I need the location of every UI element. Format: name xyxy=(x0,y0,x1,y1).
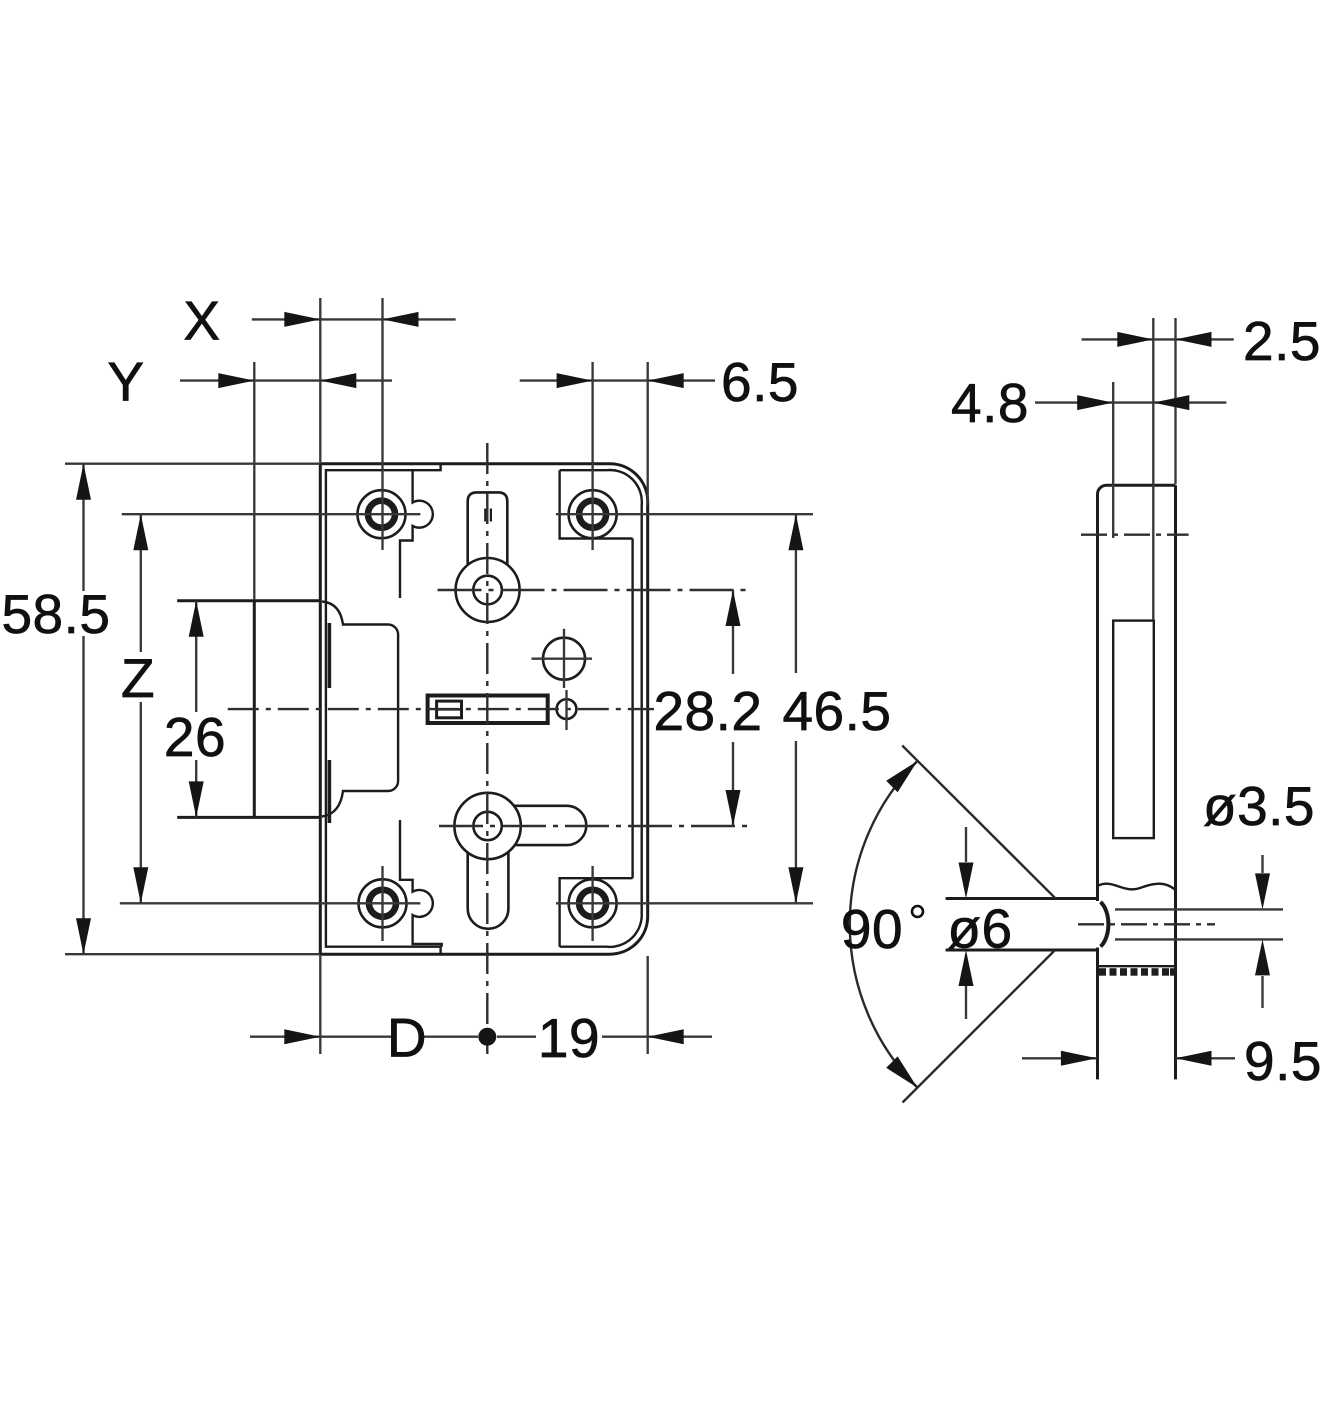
bottom-left screw boss outline with lobe xyxy=(400,820,442,947)
bottom lever inner circle xyxy=(473,812,501,840)
ø6 top arrowhead xyxy=(959,863,974,899)
ø3.5 top line xyxy=(1115,908,1283,910)
Y right arrowhead xyxy=(320,373,356,388)
dimension 4.8 line xyxy=(1035,401,1226,403)
dimension 58.5 line xyxy=(82,464,84,591)
bottom-right screw boss outline xyxy=(560,878,633,947)
main horizontal centerline xyxy=(228,708,654,710)
dimension ø3.5 line xyxy=(1261,855,1263,873)
thread band top line xyxy=(1098,965,1176,967)
svg-text:D: D xyxy=(387,1007,427,1069)
lock body inner edge right portion xyxy=(560,470,642,947)
dimension lines with arrows xyxy=(84,319,1263,1058)
Y left arrowhead xyxy=(218,373,254,388)
latch bolt flange left face xyxy=(253,601,256,818)
bottom-right screw hole bold ring xyxy=(579,890,606,917)
vertical centerline xyxy=(486,443,488,1054)
19 right arrowhead xyxy=(648,1029,684,1044)
crosshair and extension lines (thin) xyxy=(65,298,1283,1054)
svg-text:58.5: 58.5 xyxy=(1,583,110,645)
keyhole upper slot xyxy=(468,492,508,565)
46.5 bottom reference line xyxy=(556,902,813,904)
ø3.5 top arrowhead xyxy=(1255,873,1270,909)
dimension 2.5 line xyxy=(1082,338,1234,340)
Z bottom arrowhead xyxy=(133,867,148,903)
top-right screw hole bold ring xyxy=(579,501,606,528)
Z top reference / top screws horizontal crosshair xyxy=(122,513,421,515)
9.5 left arrowhead xyxy=(1061,1051,1097,1066)
key bit mid line xyxy=(437,708,462,710)
bottom-right screw vertical crosshair xyxy=(591,866,593,941)
small center hole xyxy=(557,699,577,719)
dimension Y / 6.5 line xyxy=(180,379,392,381)
ø6 bottom arrowhead xyxy=(959,950,974,986)
spindle bar top edge xyxy=(946,897,1098,900)
X right arrowhead xyxy=(383,312,419,327)
side view plate right face xyxy=(1174,485,1177,1079)
latch bolt body behind plate xyxy=(322,602,398,817)
D left arrowhead xyxy=(284,1029,320,1044)
fan arc lower arrowhead xyxy=(886,1056,917,1087)
centerlines xyxy=(228,443,1215,1054)
svg-text:X: X xyxy=(183,290,220,352)
bottom-left screw outer circle xyxy=(359,879,407,927)
spindle centerline xyxy=(1078,923,1215,925)
svg-text:46.5: 46.5 xyxy=(782,680,891,742)
side view plate left face lower xyxy=(1096,948,1099,1080)
svg-text:28.2: 28.2 xyxy=(653,680,762,742)
26 top arrowhead xyxy=(189,601,204,637)
4.8 left arrowhead xyxy=(1077,395,1113,410)
side view screw centerline xyxy=(1081,534,1189,536)
svg-text:19: 19 xyxy=(538,1007,600,1069)
svg-text:Y: Y xyxy=(107,351,144,413)
svg-text:9.5: 9.5 xyxy=(1244,1030,1322,1092)
body right edge extension down xyxy=(647,956,649,1054)
key spindle rectangle xyxy=(428,696,548,724)
Z top arrowhead xyxy=(133,514,148,550)
body left edge extension down xyxy=(319,956,321,1054)
dimension 28.2 line xyxy=(732,590,734,674)
svg-text:Z: Z xyxy=(121,647,155,709)
latch bolt shading edge bottom xyxy=(328,760,332,823)
side 4.8 left extension xyxy=(1112,382,1114,538)
9.5 right arrowhead xyxy=(1176,1051,1212,1066)
58.5 bottom arrowhead xyxy=(76,918,91,954)
6.5 left arrowhead xyxy=(557,373,593,388)
arrowheads xyxy=(76,312,1270,1066)
bolt face extension up xyxy=(253,362,255,600)
top-left screw vertical crosshair / X extension xyxy=(381,298,383,550)
small hole vertical crosshair xyxy=(565,690,567,730)
cross-marked hole horizontal crosshair xyxy=(532,658,593,660)
58.5 bottom reference extension xyxy=(65,953,320,955)
bottom-left screw hole bold ring xyxy=(369,890,396,917)
svg-text:90: 90 xyxy=(841,898,903,960)
28.2 bottom arrowhead xyxy=(726,790,741,826)
dimension 46.5 line xyxy=(795,514,797,673)
dimension X line xyxy=(252,318,456,320)
dimension D 19 line xyxy=(250,1036,392,1038)
svg-text:ø3.5: ø3.5 xyxy=(1203,775,1315,837)
spindle countersink bracket xyxy=(1101,902,1109,947)
side view plate top edge xyxy=(1107,484,1176,487)
26 bottom arrowhead xyxy=(189,781,204,817)
ø3.5 bottom arrowhead xyxy=(1255,939,1270,975)
side 2.5 right extension xyxy=(1174,318,1176,484)
body right edge extension up xyxy=(647,362,649,505)
dimension Z line xyxy=(140,514,142,652)
dimension ø6 line xyxy=(965,827,967,862)
degree symbol of 90° xyxy=(912,906,923,917)
svg-text:2.5: 2.5 xyxy=(1243,310,1321,372)
svg-text:ø6: ø6 xyxy=(947,898,1012,960)
2.5 right arrowhead xyxy=(1176,332,1212,347)
90 degree fan xyxy=(850,746,1056,1103)
bottom lever horizontal centerline xyxy=(439,825,752,827)
top-right screw outer circle xyxy=(569,490,617,538)
6.5 right arrowhead xyxy=(648,373,684,388)
dimension 26 line xyxy=(195,601,197,712)
keyhole nut inner circle xyxy=(473,576,502,605)
latch bolt bottom edge xyxy=(177,816,320,819)
side view break wavy line xyxy=(1098,884,1176,890)
fan arc upper arrowhead xyxy=(886,761,917,792)
side 2.5 left extension xyxy=(1152,318,1154,620)
cavity right edge xyxy=(631,539,633,879)
top-left screw outer circle xyxy=(358,490,406,538)
58.5 top arrowhead xyxy=(76,464,91,500)
4.8 right arrowhead xyxy=(1153,395,1189,410)
Z bottom reference / bottom-left screw crosshair xyxy=(120,902,421,904)
58.5 top reference extension xyxy=(65,463,320,465)
bottom lever slot xyxy=(468,852,509,929)
lock body inner edge xyxy=(326,464,441,954)
svg-text:26: 26 xyxy=(164,706,226,768)
body left edge extension up xyxy=(319,298,321,462)
keyhole nut horizontal centerline xyxy=(438,589,753,591)
svg-text:4.8: 4.8 xyxy=(951,372,1029,434)
latch bolt shading edge top xyxy=(328,623,332,688)
top-left screw hole bold ring xyxy=(368,501,395,528)
side view plate left face upper xyxy=(1098,485,1107,901)
top-right screw vertical crosshair / 6.5 extension xyxy=(591,362,593,550)
top-left screw boss outline with lobe xyxy=(400,470,433,598)
2.5 left arrowhead xyxy=(1117,332,1153,347)
top-right screw boss outline xyxy=(560,470,633,538)
thread band hatch dashes xyxy=(1099,968,1176,976)
fan upper ray xyxy=(902,746,1055,899)
46.5 top reference line xyxy=(556,513,813,515)
key bit rectangle xyxy=(437,701,462,718)
latch bolt top edge xyxy=(177,599,320,602)
ø3.5 bottom line xyxy=(1115,938,1283,940)
X left arrowhead xyxy=(284,312,320,327)
46.5 bottom arrowhead xyxy=(788,867,803,903)
cross-marked hole vertical crosshair xyxy=(563,629,565,688)
lock body outer outline xyxy=(320,464,647,955)
side view inner slot xyxy=(1113,621,1154,839)
46.5 top arrowhead xyxy=(788,514,803,550)
dimension 9.5 line xyxy=(1022,1057,1097,1059)
fan arc xyxy=(850,761,918,1088)
cross-marked hole xyxy=(543,638,585,680)
keyhole inner square slot marks xyxy=(485,509,491,522)
dimension 6.5 line xyxy=(520,379,715,381)
fan lower ray xyxy=(903,951,1055,1103)
keyhole nut outer circle xyxy=(456,558,520,622)
svg-text:6.5: 6.5 xyxy=(721,351,799,413)
bottom lever arm xyxy=(513,806,586,845)
spindle bar bottom edge xyxy=(946,949,1098,952)
28.2 top arrowhead xyxy=(726,590,741,626)
bottom-right screw outer circle xyxy=(569,879,617,927)
bottom-left screw vertical crosshair xyxy=(381,866,383,941)
bottom lever outer circle xyxy=(454,793,520,859)
D 19 reference dot xyxy=(478,1028,496,1046)
